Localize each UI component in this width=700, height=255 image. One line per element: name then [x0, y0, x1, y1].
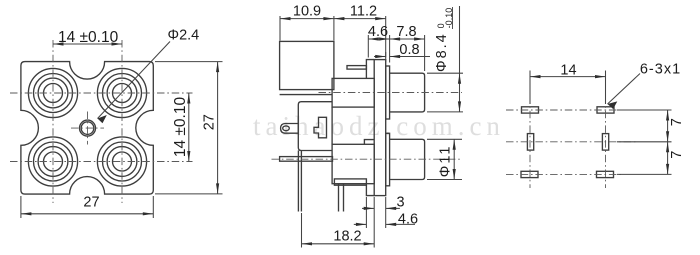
svg-text:Φ11: Φ11 — [438, 145, 454, 178]
svg-text:14 ±0.10: 14 ±0.10 — [172, 97, 189, 158]
svg-text:27: 27 — [83, 195, 99, 211]
svg-text:27: 27 — [202, 114, 218, 130]
svg-text:0.8: 0.8 — [399, 42, 419, 58]
svg-text:14: 14 — [560, 63, 576, 79]
svg-text:10.9: 10.9 — [293, 4, 321, 20]
svg-text:7: 7 — [669, 118, 685, 126]
svg-text:18.2: 18.2 — [333, 229, 361, 245]
svg-text:4.6: 4.6 — [398, 212, 418, 228]
svg-text:14 ±0.10: 14 ±0.10 — [58, 29, 119, 46]
svg-text:11.2: 11.2 — [350, 4, 377, 20]
svg-text:6-3x1: 6-3x1 — [640, 62, 681, 78]
svg-text:taihaodz.com.cn: taihaodz.com.cn — [253, 111, 505, 141]
svg-text:Φ8.4: Φ8.4 — [434, 32, 450, 72]
svg-text:7: 7 — [669, 151, 685, 159]
svg-text:3: 3 — [396, 195, 404, 211]
svg-text:-0.10: -0.10 — [444, 8, 454, 29]
svg-text:Φ2.4: Φ2.4 — [168, 28, 200, 44]
svg-text:7.8: 7.8 — [396, 24, 416, 40]
svg-text:4.6: 4.6 — [368, 24, 388, 40]
